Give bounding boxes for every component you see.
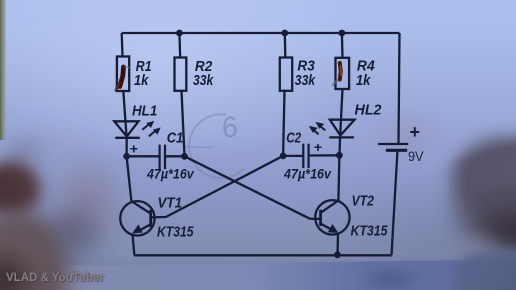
svg-text:C1: C1 (167, 129, 184, 146)
transistor VT1 (120, 201, 154, 235)
right hand dark shadow (470, 205, 516, 260)
wire battery plus to top rail (399, 33, 400, 144)
wire top rail (122, 32, 400, 34)
wire VT2 emitter down (336, 234, 339, 255)
svg-text:HL2: HL2 (355, 102, 383, 119)
wire C1 to node B (165, 155, 185, 157)
wire R1 to HL1 (123, 91, 126, 138)
capacitor C1 (160, 145, 165, 169)
bottom blue-grey strip below paper (0, 254, 516, 268)
faint see-through circle (189, 114, 244, 178)
wire node D to VT2 collector (338, 155, 339, 200)
faint see-through line (186, 146, 213, 149)
wire VT1 emitter down (133, 235, 135, 256)
wire R2 top lead (178, 33, 181, 58)
battery GB1 (378, 144, 408, 150)
HL2 light arrows (309, 122, 325, 134)
node A junction dot (123, 153, 130, 160)
svg-text:33k: 33k (295, 72, 316, 89)
resistor R4 (336, 58, 350, 89)
smudge on resistor R4 (333, 63, 341, 85)
upper finger shadow (2, 132, 48, 174)
wire R4 to HL2 (340, 89, 342, 137)
left mid grey tint (0, 115, 130, 275)
wire bottom rail (134, 254, 391, 256)
svg-text:1k: 1k (134, 72, 149, 89)
light patch above corner (448, 230, 504, 268)
svg-text:KT315: KT315 (157, 223, 194, 240)
bottom-right blue corner (455, 252, 516, 290)
wire node A to C1 (127, 155, 159, 157)
svg-text:1k: 1k (356, 72, 371, 89)
wire HL1 to node A (125, 138, 127, 157)
svg-text:VT1: VT1 (158, 195, 183, 212)
resistor R1 (117, 57, 129, 92)
transistor VT2 (315, 200, 349, 234)
wire node C to C2 (283, 155, 303, 157)
bottom right paper darkening (330, 170, 516, 290)
wire C2 to node D (309, 154, 340, 156)
node C junction dot (280, 153, 287, 160)
svg-text:KT315: KT315 (351, 222, 389, 239)
wire R3 top lead (284, 33, 287, 58)
node D junction dot (336, 152, 343, 159)
svg-text:33k: 33k (193, 72, 214, 89)
resistor R2 (175, 58, 187, 91)
wire R2 bottom to node B (182, 91, 185, 157)
wire R4 top lead (341, 33, 344, 58)
svg-text:HL1: HL1 (132, 103, 157, 120)
node E junction dot bottom (334, 251, 341, 258)
smudge on resistor R1 (116, 67, 131, 91)
wire diagonal node B to VT2 base (185, 156, 322, 219)
HL1 light arrows (142, 121, 160, 136)
svg-text:VT2: VT2 (352, 192, 375, 209)
wire riser bottom rail to battery minus (392, 150, 398, 255)
table sliver top-left (0, 0, 6, 140)
svg-text:+: + (410, 122, 421, 142)
wire R1 top lead (121, 33, 124, 57)
svg-text:+: + (130, 141, 138, 157)
capacitor C2 (303, 144, 308, 168)
node top of R2 (176, 30, 183, 37)
LED HL1 (114, 121, 140, 138)
pink smudge near battery (372, 108, 444, 160)
wire HL2 to node D (338, 137, 341, 155)
dark shadow lower left on paper (36, 202, 106, 266)
right hand mass (452, 138, 516, 248)
svg-text:9V: 9V (408, 149, 424, 164)
left hand bottom blur (0, 212, 70, 290)
watermark VLAD & YouTuber (6, 272, 226, 287)
LED HL2 (329, 120, 354, 138)
left hand dark corner (0, 245, 40, 290)
svg-text:47µ*16v: 47µ*16v (283, 165, 332, 181)
wire diagonal node C to VT1 base (152, 156, 284, 218)
svg-text:+: + (314, 139, 322, 155)
resistor R3 (280, 58, 292, 91)
node top of R3 (281, 30, 288, 37)
svg-text:C2: C2 (286, 130, 302, 147)
soft shadow on paper right of finger (56, 156, 124, 248)
svg-text:47µ*16v: 47µ*16v (146, 165, 195, 181)
left finger blur (0, 160, 42, 218)
svg-text:6: 6 (218, 110, 242, 145)
node B junction dot (181, 153, 188, 160)
wire R3 bottom to node C (283, 91, 284, 156)
wire VT1 collector (127, 156, 132, 201)
right hand upper finger band (444, 142, 516, 201)
node top of R4 (339, 30, 346, 37)
